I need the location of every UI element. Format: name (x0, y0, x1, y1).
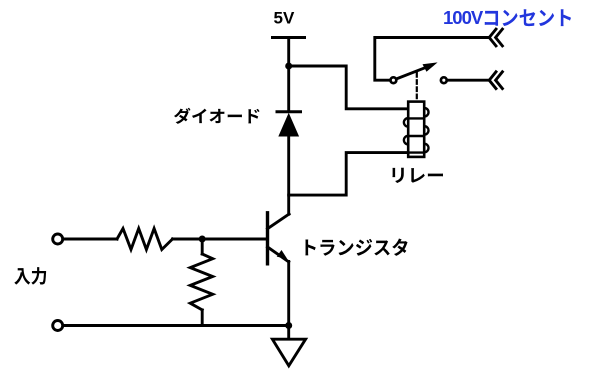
svg-text:100V: 100V (443, 7, 484, 28)
svg-text:5V: 5V (274, 8, 295, 27)
